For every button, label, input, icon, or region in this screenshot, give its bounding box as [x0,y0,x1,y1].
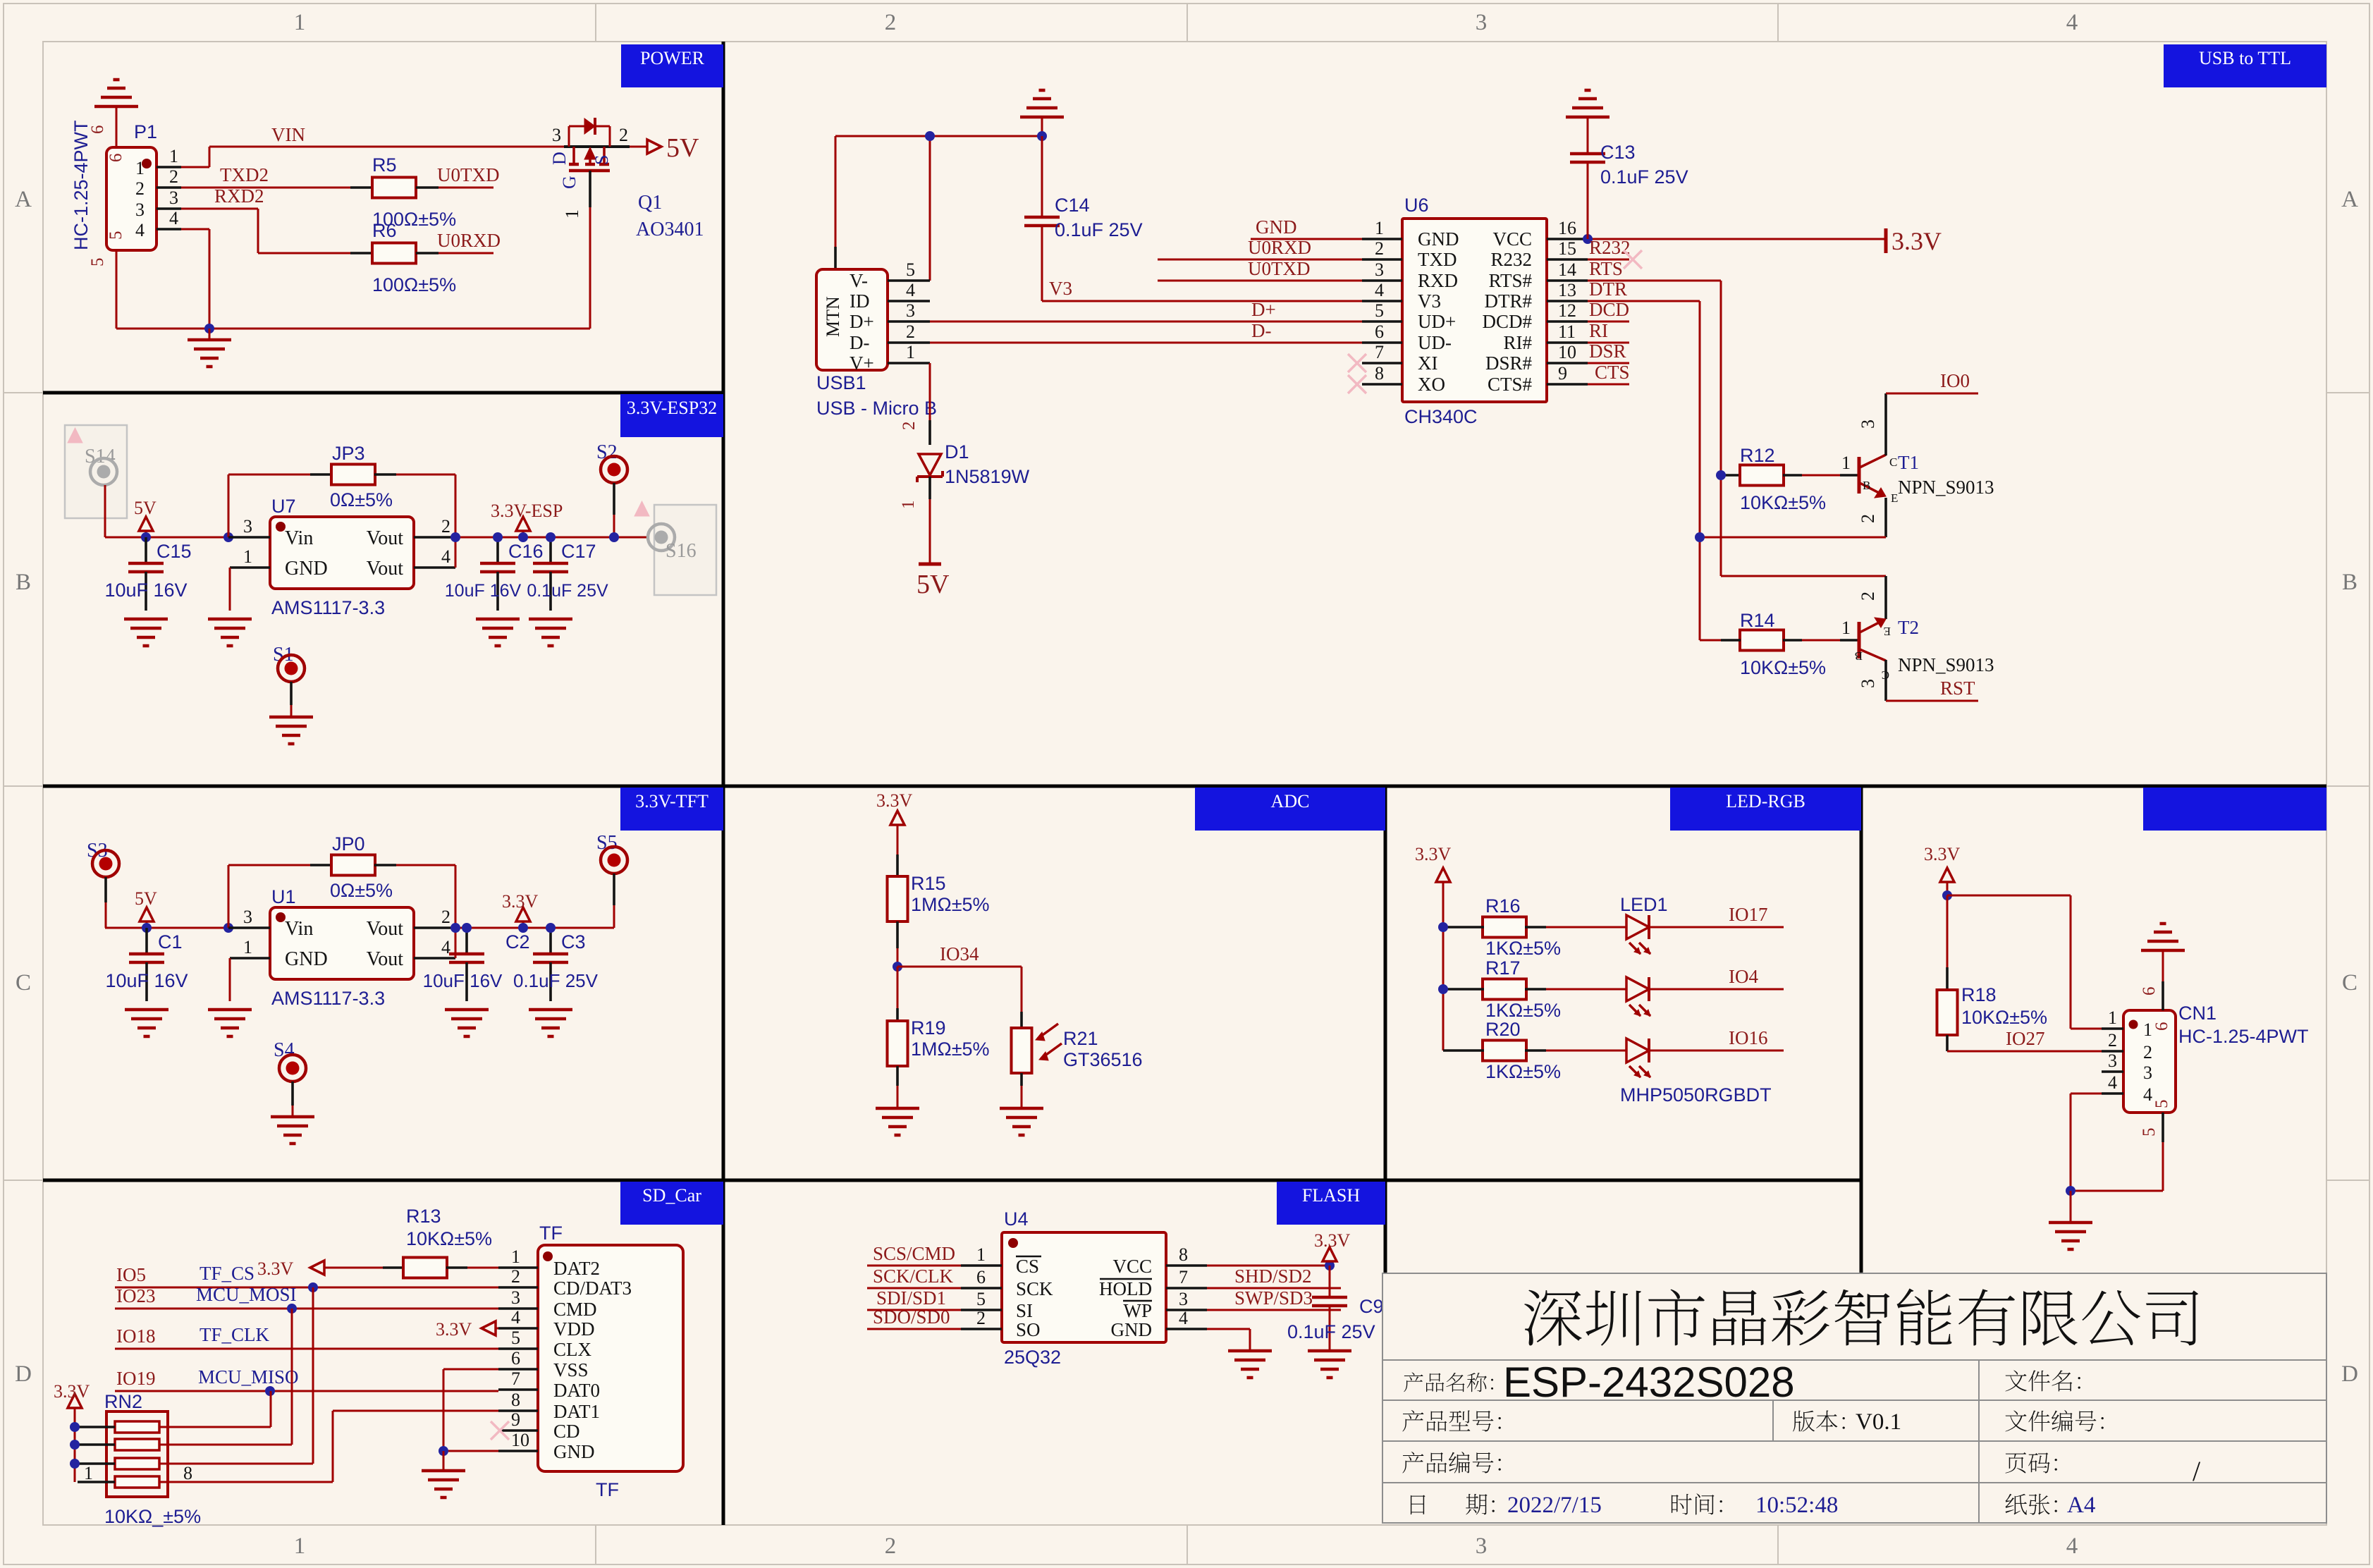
junction [1037,131,1047,141]
svg-text:G: G [559,176,580,189]
resistor R16 1K [1443,926,1463,929]
svg-text:2: 2 [885,10,897,35]
svg-text:T2: T2 [1898,617,1919,638]
svg-text:6: 6 [88,125,107,135]
svg-text:Vin: Vin [285,918,313,940]
ground (U1) [208,1008,252,1012]
svg-text:IO17: IO17 [1729,904,1768,925]
LED1 element 1 [1626,915,1649,939]
wire IO19 / MCU_MISO [115,1390,498,1392]
svg-text:14: 14 [1558,259,1576,280]
ground (CN1 top, inverted) [2141,949,2185,953]
svg-text:VCC: VCC [1112,1256,1152,1277]
svg-text:5: 5 [2152,1100,2171,1109]
wire RTS line to T2 emitter [1721,575,1886,577]
svg-text:R17: R17 [1485,957,1521,979]
svg-text:SDI/SD1: SDI/SD1 [876,1287,946,1309]
svg-text:3: 3 [1476,10,1488,35]
svg-text:DAT0: DAT0 [553,1380,600,1401]
resistor R6 100R [350,252,373,255]
junction [546,923,556,933]
svg-text:1KΩ±5%: 1KΩ±5% [1485,1061,1561,1082]
svg-text:3.3V-ESP32: 3.3V-ESP32 [627,398,717,418]
svg-text:2: 2 [441,516,450,537]
wire SCK/CLK [867,1287,961,1290]
junction [518,923,528,933]
ground (above USB1 MTN) [1020,116,1064,119]
power bar 5V (below D1) [919,563,941,566]
svg-text:13: 13 [1558,280,1576,300]
ground (S4) [271,1115,314,1119]
section tab USB to TTL [2164,44,2326,87]
svg-text:1: 1 [2143,1019,2152,1040]
svg-text:DAT1: DAT1 [553,1401,600,1422]
svg-text:JP0: JP0 [332,833,365,855]
svg-text:VSS: VSS [553,1359,589,1380]
svg-text:3.3V-TFT: 3.3V-TFT [635,791,709,811]
svg-text:CS: CS [1016,1256,1039,1277]
resistor JP0 0R [228,865,230,928]
svg-text:0.1uF 25V: 0.1uF 25V [1600,166,1688,188]
svg-text:GND: GND [285,558,328,580]
svg-text:3: 3 [243,516,252,537]
svg-text:10uF 16V: 10uF 16V [445,581,522,601]
svg-text:XO: XO [1418,374,1445,395]
wire SDI/SD1 [867,1309,961,1311]
wire IO27 [1947,1051,2102,1053]
svg-text:5V: 5V [916,570,950,599]
connector CN1 [2123,1010,2176,1113]
svg-text:SD_Car: SD_Car [642,1185,701,1206]
svg-text:C9: C9 [1359,1296,1384,1317]
field 时间 [1672,1494,1692,1515]
ground (above P1 pin6) [94,105,138,109]
svg-text:ADC: ADC [1271,791,1310,811]
capacitor C3 0.1uF [549,928,552,954]
ground (R21) [1000,1107,1043,1110]
wire VSS/GND tie [443,1368,498,1371]
regulator U1 AMS1117-3.3 [270,907,414,979]
svg-text:DCD#: DCD# [1482,311,1532,332]
junction [287,1304,297,1313]
wire DSR stub [1588,362,1629,365]
section tab 3.3V-TFT [620,788,723,831]
wire MTN/V- gnd net [835,135,1042,137]
pad S14 (unused, gray) [65,425,127,518]
svg-text:1KΩ±5%: 1KΩ±5% [1485,1000,1561,1021]
svg-text:U4: U4 [1004,1208,1029,1230]
svg-text:MCU_MISO: MCU_MISO [198,1366,299,1388]
svg-text:E: E [1884,625,1891,638]
svg-text:Vout: Vout [367,948,404,970]
svg-text:Q1: Q1 [638,192,662,214]
svg-text:10:52:48: 10:52:48 [1755,1493,1838,1518]
svg-text:4: 4 [1375,280,1384,300]
svg-text:CTS: CTS [1595,362,1630,383]
section tab 3.3V-ESP32 [620,394,723,437]
wire SCS/CMD [867,1265,961,1267]
svg-text:2: 2 [2143,1042,2152,1062]
resistor R18 10K [1946,895,1949,967]
wire CN1 pin4 to gnd [2071,1093,2102,1095]
svg-text:CLX: CLX [553,1339,592,1360]
junction [308,1282,318,1292]
wire V+ to D1 [929,363,931,420]
svg-text:U6: U6 [1404,195,1429,216]
svg-text:R20: R20 [1485,1019,1521,1040]
svg-text:RXD: RXD [1418,270,1458,291]
svg-text:4: 4 [135,220,145,240]
regulator U7 AMS1117-3.3 [270,517,414,589]
svg-text:3.3V: 3.3V [1415,844,1452,864]
svg-text:U0RXD: U0RXD [437,230,501,251]
power flag 5V [139,517,153,531]
svg-text:16: 16 [1558,218,1576,238]
power flag 3.3V (U4) [1323,1247,1337,1261]
svg-text:NPN_S9013: NPN_S9013 [1898,477,1994,498]
svg-text:IO19: IO19 [116,1368,156,1389]
section tab SD_Car [620,1182,723,1225]
svg-text:C15: C15 [157,541,192,562]
svg-text:2: 2 [885,1533,897,1559]
svg-text:R13: R13 [406,1206,441,1227]
resistor R14 10K [1700,639,1721,642]
svg-text:1: 1 [906,342,915,362]
wire U4 GND [1207,1328,1250,1330]
svg-text:2: 2 [135,178,145,199]
svg-text:/: / [2193,1455,2201,1487]
5V rail (TFT) [105,927,614,929]
wire RI stub [1588,342,1629,344]
section tab POWER [621,44,723,87]
svg-text:MHP5050RGBDT: MHP5050RGBDT [1620,1084,1772,1105]
svg-text:DTR: DTR [1589,278,1627,300]
svg-text:1: 1 [169,146,178,166]
field 产品名称 [1404,1373,1423,1392]
svg-text:4: 4 [441,546,450,567]
svg-text:POWER: POWER [640,48,705,68]
svg-text:1: 1 [1841,453,1851,473]
svg-text:3: 3 [2143,1062,2152,1083]
svg-text:2: 2 [1375,238,1384,259]
svg-text:0.1uF 25V: 0.1uF 25V [513,970,599,991]
wire IO23 / MCU_MOSI [115,1308,498,1310]
svg-text:Vout: Vout [367,918,404,940]
svg-text:U0TXD: U0TXD [437,164,500,185]
svg-text:GND: GND [1111,1319,1153,1340]
ground (C16) [476,618,520,621]
svg-text:9: 9 [511,1409,520,1430]
svg-text:RN2: RN2 [104,1391,142,1412]
capacitor C16 10uF [496,537,499,563]
svg-text:6: 6 [2140,987,2159,996]
svg-text:CMD: CMD [553,1299,597,1320]
svg-text:2: 2 [441,907,450,927]
svg-text:R18: R18 [1961,984,1997,1005]
svg-text:AMS1117-3.3: AMS1117-3.3 [271,597,385,618]
svg-text:3.3V-ESP: 3.3V-ESP [491,501,563,521]
svg-text:Vout: Vout [367,558,404,580]
wire RXD2 [181,208,258,210]
svg-text:3.3V: 3.3V [876,790,913,811]
svg-text:0.1uF 25V: 0.1uF 25V [527,581,608,601]
wire U1 GND to ground [229,958,231,1001]
svg-text:1: 1 [243,937,252,957]
svg-text:HC-1.25-4PWT: HC-1.25-4PWT [70,120,92,250]
svg-text:1: 1 [1841,618,1851,638]
field 页码 [2005,1452,2026,1474]
transistor T2 NPN_S9013 (mirrored) [1858,622,1861,659]
svg-text:5V: 5V [666,133,699,163]
junction [70,1440,80,1450]
svg-text:5: 5 [511,1328,520,1348]
svg-text:9: 9 [1558,363,1567,384]
RN2 pullup wires [159,1426,271,1428]
no-connect X pins 7,8 [1348,354,1366,372]
resistor R19 1M [897,967,899,1021]
capacitor C14 0.1uF [1041,136,1043,217]
svg-text:R12: R12 [1740,445,1775,466]
svg-text:15: 15 [1558,238,1576,259]
svg-text:1: 1 [899,501,918,510]
svg-text:SI: SI [1016,1300,1033,1321]
svg-text:10: 10 [511,1430,529,1450]
svg-text:USB - Micro B: USB - Micro B [816,398,937,419]
svg-text:DTR#: DTR# [1485,290,1533,312]
wire IO4 [1649,988,1784,991]
svg-text:FLASH: FLASH [1302,1185,1361,1206]
svg-text:IO16: IO16 [1729,1027,1768,1048]
wire IO16 [1649,1050,1784,1052]
svg-text:3.3V: 3.3V [54,1381,90,1402]
svg-text:UD-: UD- [1418,332,1452,353]
svg-text:3: 3 [906,300,915,321]
resistor R20 1K [1443,1049,1463,1052]
svg-text:3: 3 [1858,679,1878,688]
svg-text:B: B [16,570,31,595]
ground (CN1 bottom) [2049,1221,2092,1225]
svg-text:IO5: IO5 [116,1264,146,1285]
svg-text:1: 1 [84,1463,93,1483]
svg-text:3: 3 [169,188,178,208]
resistor R12 10K [1721,474,1741,477]
svg-text:V3: V3 [1418,290,1441,312]
section tab ADC [1195,788,1385,831]
svg-text:AO3401: AO3401 [636,219,704,240]
transistor Q1 AO3401 (PMOS) [564,145,630,148]
svg-text:6: 6 [976,1267,986,1287]
svg-text:V+: V+ [850,353,874,374]
svg-text:SCK/CLK: SCK/CLK [873,1266,954,1287]
svg-text:NPN_S9013: NPN_S9013 [1898,654,1994,675]
svg-text:R6: R6 [372,220,397,241]
svg-text:A: A [2341,187,2358,212]
field 版本 V0.1 [1793,1411,1815,1432]
svg-text:6: 6 [1375,321,1384,342]
svg-text:TXD2: TXD2 [220,164,269,185]
junction [70,1422,80,1432]
svg-text:UD+: UD+ [1418,311,1456,332]
svg-text:TF_CLK: TF_CLK [200,1324,270,1345]
svg-text:3: 3 [1858,419,1878,429]
svg-text:D+: D+ [1251,299,1276,320]
svg-text:C16: C16 [508,541,544,562]
capacitor C1 10uF [145,928,148,954]
svg-text:C14: C14 [1055,195,1090,216]
ground (C17) [529,618,572,621]
svg-text:IO23: IO23 [116,1285,156,1306]
junction (Vout) [450,532,460,542]
svg-text:MTN: MTN [823,296,843,337]
wire IO34 [897,966,1022,968]
junction (pin4/gnd) [204,324,214,333]
wire RTS [1588,280,1721,282]
svg-text:R232: R232 [1589,237,1631,258]
svg-text:RI#: RI# [1504,332,1533,353]
svg-text:C: C [1889,455,1897,469]
svg-text:CH340C: CH340C [1404,406,1478,427]
junction (RTS/R12) [1716,470,1726,480]
wire CTS stub [1588,384,1629,386]
section tab (unnamed) [2143,788,2326,831]
svg-text:1: 1 [294,10,306,35]
svg-text:D: D [2341,1361,2358,1387]
svg-text:1: 1 [511,1247,520,1267]
overlines CS/HOLD/WP [1016,1256,1041,1258]
junction [70,1459,80,1469]
wires GND/U0RXD/U0TXD into U6 [1251,238,1362,240]
svg-text:5: 5 [906,259,915,280]
wire R232 stub [1588,259,1629,261]
company name 深圳市晶彩智能有限公司 [1524,1290,1582,1346]
junction [493,532,503,542]
svg-text:2: 2 [2108,1030,2117,1051]
wire V3 [1042,300,1362,302]
svg-text:1N5819W: 1N5819W [945,466,1030,487]
svg-text:7: 7 [511,1368,520,1389]
svg-text:4: 4 [2066,10,2078,35]
svg-text:C17: C17 [561,541,596,562]
svg-text:3.3V: 3.3V [257,1258,294,1279]
svg-text:2: 2 [619,125,628,145]
svg-text:IO34: IO34 [940,943,979,964]
svg-text:USB1: USB1 [816,372,866,393]
svg-text:D: D [15,1361,32,1387]
svg-text:GND: GND [1418,228,1459,250]
ground (C2) [445,1008,489,1012]
svg-text:USB to TTL: USB to TTL [2199,48,2291,68]
svg-text:10KΩ±5%: 10KΩ±5% [1740,492,1826,513]
field 文件编号 [2005,1411,2026,1432]
IC U6 CH340C [1402,219,1547,402]
svg-text:0.1uF 25V: 0.1uF 25V [1055,219,1143,240]
junction [1583,234,1593,244]
svg-text:1: 1 [243,546,252,567]
resistor JP3 0R [228,474,230,537]
ground (bottom rail) [209,329,211,340]
wire P1 pin5/pin4 to GND rail [116,250,118,329]
ground (R19) [876,1107,919,1110]
svg-text:4: 4 [2108,1072,2117,1093]
svg-text:XI: XI [1418,353,1438,374]
svg-text:SDO/SD0: SDO/SD0 [873,1306,950,1328]
svg-text:5: 5 [2140,1128,2159,1137]
svg-text:RTS#: RTS# [1489,270,1533,291]
capacitor C17 0.1uF [549,537,552,563]
capacitor C2 10uF [465,928,468,954]
wire IO0 [1886,393,1978,395]
connector P1 [106,147,157,250]
svg-text:E: E [1891,491,1898,505]
section border lines [43,391,723,395]
svg-text:3: 3 [1375,259,1384,280]
svg-text:RI: RI [1589,320,1608,341]
junction [439,1446,448,1456]
svg-text:4: 4 [2066,1533,2078,1559]
svg-text:3: 3 [552,125,561,145]
svg-text:1MΩ±5%: 1MΩ±5% [911,894,990,915]
svg-text:2: 2 [511,1266,520,1287]
wire DCD stub [1588,321,1629,323]
svg-text:5: 5 [1375,300,1384,321]
capacitor C13 0.1uF [1570,152,1605,156]
svg-text:MCU_MOSI: MCU_MOSI [196,1284,297,1305]
svg-text:1: 1 [1375,218,1384,238]
svg-text:GT36516: GT36516 [1063,1049,1143,1070]
svg-text:TF: TF [596,1479,619,1500]
svg-text:U7: U7 [271,496,296,517]
svg-text:R15: R15 [911,873,946,894]
svg-text:SO: SO [1016,1319,1041,1340]
svg-text:V3: V3 [1049,278,1072,299]
ground (C9) [1308,1349,1351,1353]
resistor R17 1K [1443,988,1463,991]
svg-text:IO0: IO0 [1940,370,1970,391]
svg-text:C: C [1882,668,1889,682]
svg-text:8: 8 [183,1463,192,1483]
junction [1695,532,1705,542]
junction [925,131,935,141]
svg-text:SCS/CMD: SCS/CMD [873,1243,955,1264]
svg-text:C13: C13 [1600,142,1636,163]
ground (S1) [269,716,313,719]
svg-text:JP3: JP3 [332,443,365,464]
R21 arrows [1038,1024,1058,1039]
capacitor C9 0.1uF [1329,1266,1331,1297]
svg-text:4: 4 [2143,1084,2152,1105]
svg-text:D+: D+ [850,311,874,332]
svg-text:IO27: IO27 [2006,1028,2045,1049]
svg-text:R5: R5 [372,154,397,176]
svg-text:3: 3 [1476,1533,1488,1559]
connector USB1 micro B [816,269,888,370]
svg-text:U1: U1 [271,886,296,907]
svg-text:0.1uF 25V: 0.1uF 25V [1287,1321,1375,1342]
power bar 3.3V [1884,228,1888,253]
svg-text:4: 4 [1179,1308,1188,1328]
svg-text:5V: 5V [134,498,157,518]
svg-text:SWP/SD3: SWP/SD3 [1234,1287,1313,1309]
power flag 3.3V (VDD) [482,1321,496,1335]
svg-text:RST: RST [1940,678,1975,699]
svg-text:1: 1 [976,1244,986,1265]
svg-text:12: 12 [1558,300,1576,321]
wire D+ [930,321,1362,323]
svg-text:10KΩ±5%: 10KΩ±5% [406,1228,492,1249]
svg-text:R21: R21 [1063,1028,1098,1049]
svg-text:7: 7 [1375,342,1384,362]
pad S16 (unused, gray) [654,505,716,595]
